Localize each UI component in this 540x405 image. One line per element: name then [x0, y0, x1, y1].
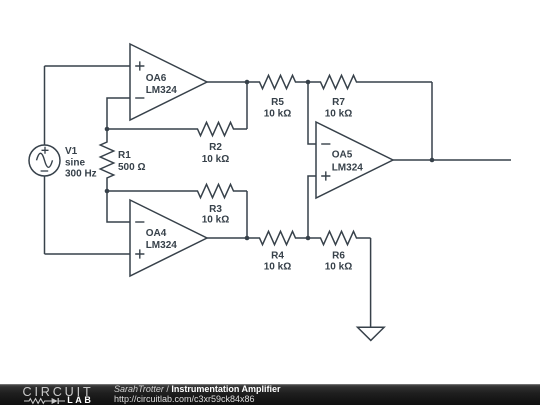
- node R5/R7 junction: [306, 80, 311, 85]
- node OA6 output junction: [245, 80, 250, 85]
- svg-text:10 kΩ: 10 kΩ: [264, 261, 291, 272]
- node OA4 output junction: [245, 236, 250, 241]
- label V1 sine 300 Hz: [65, 146, 97, 180]
- wire top row to OA6 + input: [45, 65, 131, 67]
- op-amp OA6: [130, 44, 207, 120]
- op-amp OA4: [130, 200, 207, 276]
- node OA5 output junction: [430, 158, 435, 163]
- svg-text:10 kΩ: 10 kΩ: [202, 154, 229, 165]
- resistor R2: [107, 122, 247, 135]
- label OA4 LM324: [146, 228, 178, 251]
- wire bottom row to OA4 + input: [45, 253, 131, 255]
- wire feedback down to output: [431, 82, 433, 160]
- svg-text:R1: R1: [118, 150, 131, 161]
- node R1 bottom junction: [105, 189, 110, 194]
- svg-text:LM324: LM324: [146, 240, 178, 251]
- wire R3 down to OA4 output node: [246, 191, 248, 238]
- wire OA6 output: [207, 81, 247, 83]
- resistor R7: [308, 75, 369, 88]
- wire OA5 output: [393, 159, 511, 161]
- svg-text:R5: R5: [271, 97, 284, 108]
- svg-text:R6: R6: [332, 250, 345, 261]
- svg-text:V1: V1: [65, 146, 78, 157]
- svg-text:sine: sine: [65, 158, 85, 169]
- resistor R4: [247, 231, 308, 244]
- resistor R1: [100, 129, 113, 191]
- voltage source V1: [29, 145, 60, 176]
- svg-text:300 Hz: 300 Hz: [65, 169, 97, 180]
- attribution text: [114, 384, 281, 404]
- wire OA5 inverting input up to R5/R7 node: [308, 82, 316, 144]
- wire V1 bottom vertical: [44, 176, 46, 254]
- wire OA4 inverting input to node: [107, 191, 130, 222]
- wire OA5 noninverting input down to R4/R6 node: [308, 176, 316, 238]
- wire OA6 inverting input to node: [107, 98, 130, 129]
- svg-text:500 Ω: 500 Ω: [118, 162, 145, 173]
- CircuitLab logo: [23, 385, 94, 399]
- wire V1 top vertical: [44, 66, 46, 145]
- resistor R3: [107, 184, 247, 197]
- node R4/R6 junction: [306, 236, 311, 241]
- svg-text:OA4: OA4: [146, 228, 167, 239]
- svg-text:LM324: LM324: [146, 85, 178, 96]
- svg-text:R7: R7: [332, 97, 345, 108]
- op-amp OA5: [316, 122, 393, 198]
- ground: [358, 327, 385, 340]
- footer bar: [0, 384, 540, 405]
- wire R2 up to OA6 output node: [246, 82, 248, 129]
- label OA6 LM324: [146, 73, 178, 96]
- svg-text:OA5: OA5: [332, 150, 353, 161]
- resistor R6: [308, 231, 371, 244]
- svg-text:R4: R4: [271, 250, 284, 261]
- wire R6 to ground: [370, 238, 372, 327]
- resistor R5: [247, 75, 308, 88]
- svg-text:R2: R2: [209, 142, 222, 153]
- wire R7 to feedback column: [369, 81, 432, 83]
- svg-text:10 kΩ: 10 kΩ: [202, 214, 229, 225]
- node R1 top junction: [105, 127, 110, 132]
- svg-text:LM324: LM324: [332, 163, 364, 174]
- svg-text:10 kΩ: 10 kΩ: [325, 261, 352, 272]
- svg-text:OA6: OA6: [146, 73, 167, 84]
- svg-text:10 kΩ: 10 kΩ: [264, 109, 291, 120]
- label OA5 LM324: [332, 150, 364, 174]
- svg-text:10 kΩ: 10 kΩ: [325, 109, 352, 120]
- wire OA4 output: [207, 237, 247, 239]
